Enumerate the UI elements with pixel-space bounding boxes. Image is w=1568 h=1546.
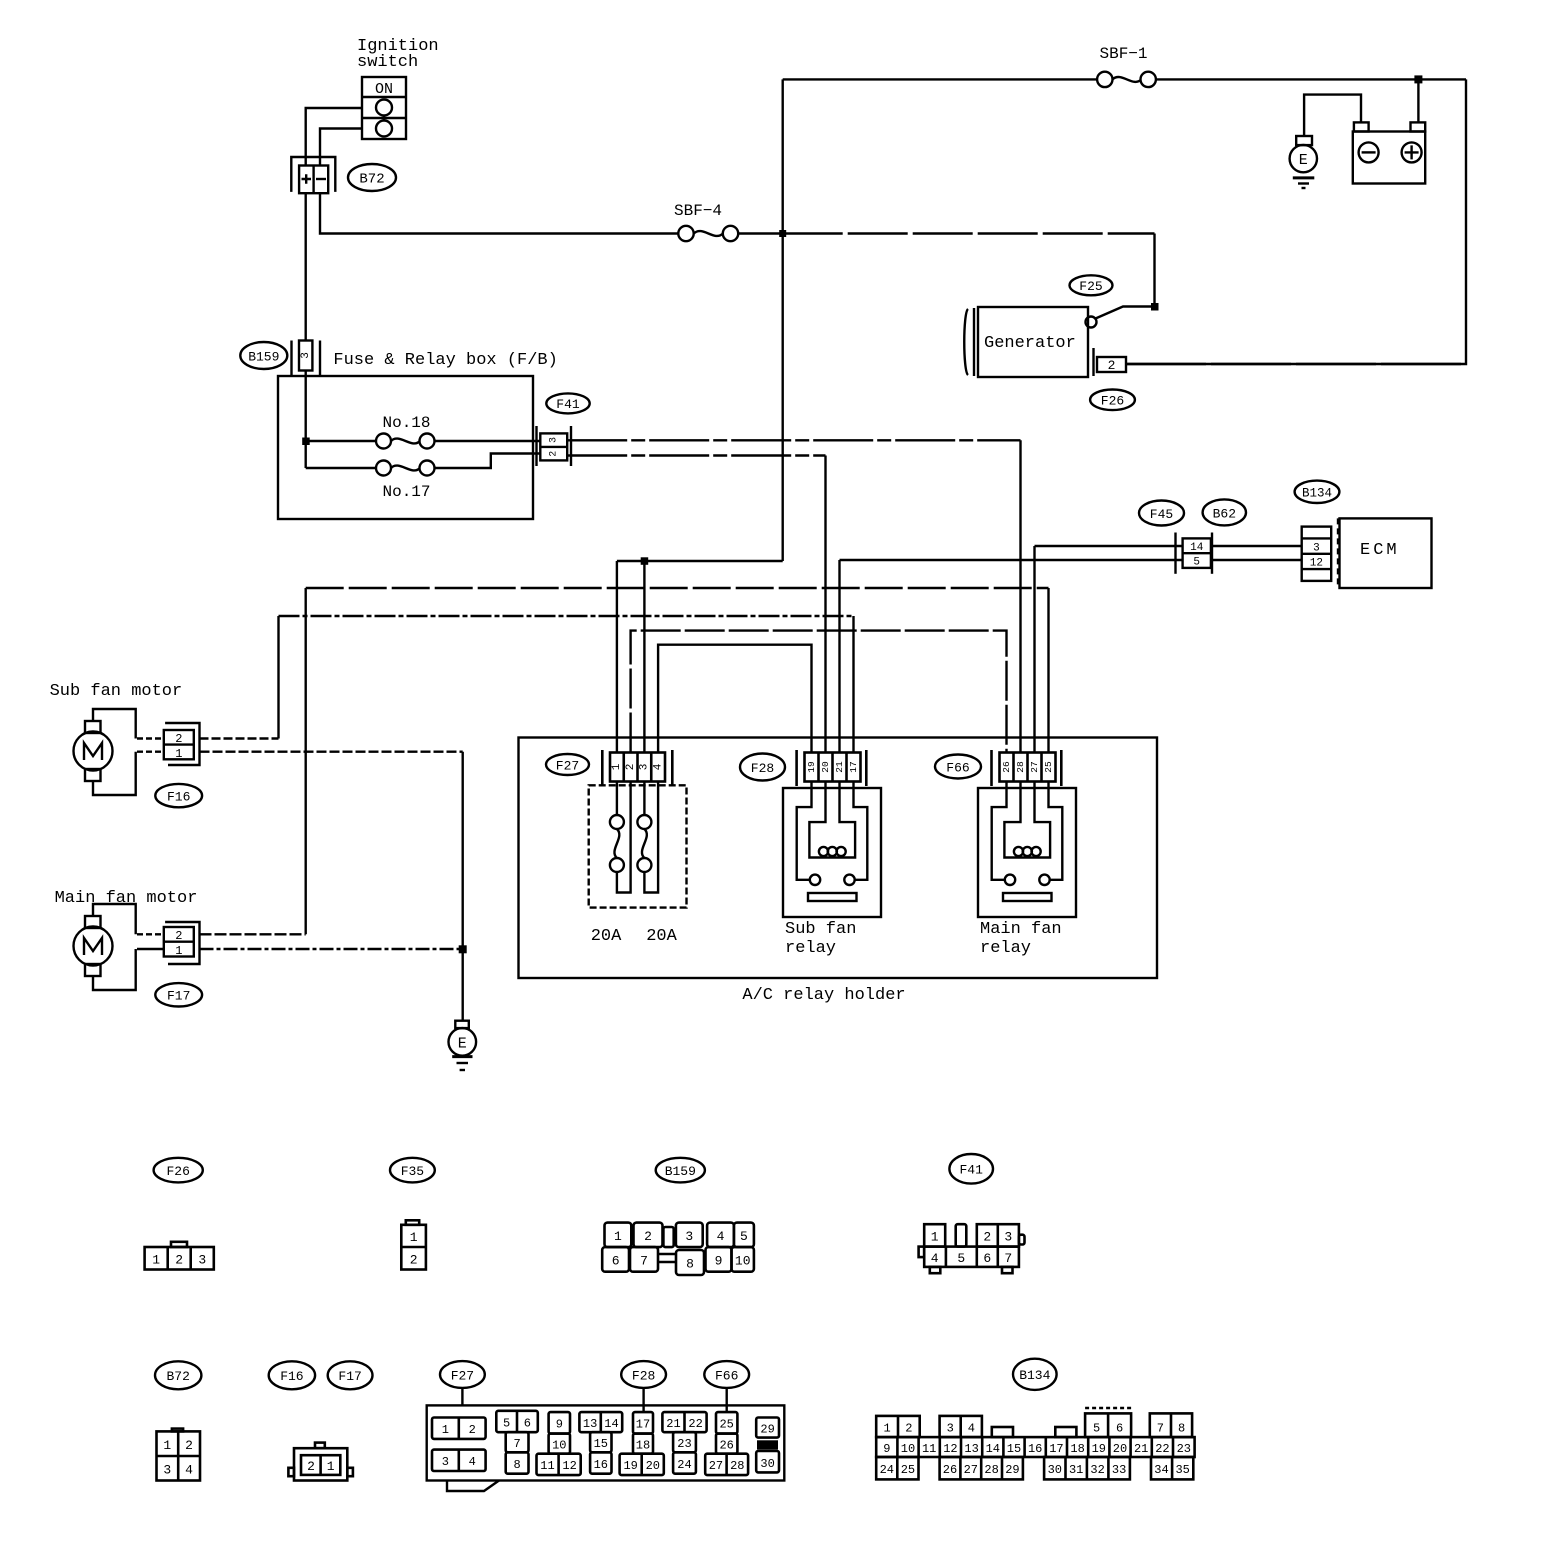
pointer F27 [461,1388,463,1405]
connector F41 pinout [919,1224,1025,1273]
oval label F41 pinout [949,1154,993,1184]
oval label F66 [935,755,981,779]
svg-text:15: 15 [1007,1442,1021,1456]
wire to fuse No.18 [306,440,376,442]
node fuse feed split [641,557,649,565]
wire drop to F25 [1153,234,1155,307]
oval label B134 [1295,481,1340,503]
wire motor to F16 pin1 [137,751,164,753]
svg-text:25: 25 [901,1463,915,1477]
svg-text:4: 4 [469,1455,476,1469]
wire main vertical feed [782,79,784,561]
svg-text:16: 16 [1028,1442,1042,1456]
svg-text:F28: F28 [632,1368,655,1383]
svg-text:Sub fan: Sub fan [785,920,856,939]
holder pinout cells 3-4 [432,1450,486,1471]
wire fuse No.18 to F41 pin1 [435,440,541,442]
wire F45 to B134 pin12 [1211,559,1302,561]
svg-text:4: 4 [717,1229,725,1244]
connector F35 pinout [401,1220,426,1269]
svg-text:22: 22 [1155,1442,1169,1456]
svg-text:5: 5 [1093,1421,1100,1435]
svg-text:27: 27 [1029,761,1040,772]
svg-text:18: 18 [636,1439,650,1453]
svg-text:F17: F17 [338,1369,361,1384]
svg-text:3: 3 [685,1229,693,1244]
svg-text:SBF−4: SBF−4 [674,202,722,220]
svg-text:F27: F27 [451,1368,474,1383]
svg-text:32: 32 [1090,1463,1104,1477]
svg-text:21: 21 [1134,1442,1148,1456]
wire F41 pin1 to F66 coil [567,439,1020,441]
A/C relay holder box [519,738,1158,979]
wire B72 pin2 down and right to SBF-4 [320,193,678,233]
connector F25 pin circle [1086,317,1097,328]
svg-text:B62: B62 [1213,506,1236,521]
svg-text:17: 17 [848,761,859,772]
svg-text:30: 30 [760,1457,774,1471]
svg-text:9: 9 [556,1418,563,1432]
svg-text:F35: F35 [401,1164,424,1179]
connector F45/B62 [1176,533,1213,574]
svg-text:B72: B72 [359,172,384,188]
fuse SBF-4 [678,226,738,241]
connector B72 [291,157,335,193]
wire F66 coil to ECM (F45 pin14) [1035,546,1183,753]
wire right side down to generator [1126,79,1466,364]
wire F17 pin2 to main fan relay [200,933,306,935]
svg-text:1: 1 [614,1229,622,1244]
connector F17 [164,922,200,964]
svg-text:20: 20 [1113,1442,1127,1456]
svg-text:B134: B134 [1302,486,1332,500]
oval label F16 [155,784,202,807]
wire battery plus to top line [1417,79,1419,122]
svg-text:20: 20 [646,1459,660,1473]
svg-text:B159: B159 [665,1164,696,1179]
svg-text:26: 26 [943,1463,957,1477]
connector F16/F17 pinout [288,1443,353,1481]
sub fan relay label [785,920,856,958]
svg-text:2: 2 [307,1459,315,1474]
oval label F16 pinout [269,1361,315,1389]
oval label B62 [1203,499,1246,525]
ignition switch SW1 [362,77,406,139]
wire F16 pin2 to sub fan relay [200,737,279,739]
svg-text:F45: F45 [1150,507,1173,522]
wire F27 pin2 to F66 pin1 [631,631,1007,753]
svg-text:29: 29 [760,1422,774,1436]
wire motor to F17 pin2 [137,933,164,935]
svg-text:30: 30 [1048,1463,1062,1477]
svg-text:No.18: No.18 [382,414,430,432]
svg-text:17: 17 [636,1418,650,1432]
svg-text:12: 12 [1310,558,1323,570]
node SBF-4 junction [779,230,786,237]
svg-text:19: 19 [623,1459,637,1473]
svg-text:10: 10 [901,1442,915,1456]
oval label F35 [390,1158,435,1183]
svg-text:2: 2 [469,1423,476,1437]
svg-text:7: 7 [513,1437,520,1451]
wire sub fan motor top bracket [93,709,136,739]
svg-text:26: 26 [1001,761,1012,773]
svg-text:B72: B72 [166,1369,189,1384]
svg-text:27: 27 [709,1459,723,1473]
oval label F66 pinout [704,1361,749,1388]
connector generator pin 2 [1094,348,1127,376]
svg-text:1: 1 [611,763,623,770]
svg-text:5: 5 [957,1251,965,1266]
svg-text:1: 1 [327,1459,335,1474]
svg-text:F26: F26 [166,1164,189,1179]
svg-text:13: 13 [964,1442,978,1456]
wire generator pin2 to battery line [1126,363,1466,365]
svg-text:34: 34 [1154,1463,1168,1477]
wire SBF-4 to main junction [738,232,783,234]
svg-text:No.17: No.17 [382,483,430,501]
wire F16 pin1 to ground rail [200,751,463,753]
oval label F45 [1139,501,1184,526]
svg-text:35: 35 [1175,1463,1189,1477]
wire main fan motor bottom bracket [93,949,136,990]
oval label B72 pinout [155,1361,201,1389]
wire F25 diagonal link [1096,307,1155,319]
svg-text:20A: 20A [591,927,622,946]
svg-text:8: 8 [1178,1421,1185,1435]
svg-text:14: 14 [986,1442,1000,1456]
ground E bottom [449,1021,477,1070]
oval label B134 pinout [1013,1359,1057,1390]
wire drop to F27 pin3 [643,561,645,753]
svg-text:2: 2 [185,1438,193,1453]
svg-text:relay: relay [980,939,1031,958]
svg-text:23: 23 [1177,1442,1191,1456]
oval label F17 pinout [328,1361,373,1389]
wire F41 pin1 drop [1019,440,1021,752]
svg-text:3: 3 [163,1463,171,1478]
svg-text:F16: F16 [280,1369,303,1384]
svg-text:13: 13 [583,1417,597,1431]
svg-text:2: 2 [1108,358,1116,373]
connector B72 pinout [157,1429,201,1481]
connector F27 [602,750,672,786]
svg-text:4: 4 [931,1251,939,1266]
wire B159 pin3 internal [305,371,307,469]
holder pinout cells 17-20 [620,1412,664,1475]
svg-text:3: 3 [1004,1229,1012,1244]
svg-text:4: 4 [968,1421,975,1435]
holder pinout cells 13-16 [579,1412,622,1474]
svg-text:3: 3 [548,437,559,443]
wire ignition pin1 to B72 [306,108,362,166]
svg-text:6: 6 [524,1416,531,1430]
sub fan relay K1 [783,782,881,918]
svg-text:23: 23 [677,1437,691,1451]
svg-text:29: 29 [1005,1463,1019,1477]
svg-text:2: 2 [905,1421,912,1435]
svg-text:1: 1 [931,1229,939,1244]
svg-text:2: 2 [175,929,182,943]
svg-text:9: 9 [883,1442,890,1456]
svg-text:27: 27 [964,1463,978,1477]
connector B134 pinout row3 [876,1457,1193,1479]
wire F17 pin1 to ground rail [200,948,463,950]
svg-text:31: 31 [1069,1463,1083,1477]
svg-text:3: 3 [1313,542,1320,554]
svg-text:5: 5 [1193,557,1200,569]
fuse No.17 [376,461,435,476]
svg-text:28: 28 [1015,761,1026,773]
oval label F28 [740,754,785,781]
oval label F17 [155,983,202,1006]
svg-text:11: 11 [922,1442,936,1456]
battery BAT [1353,122,1425,183]
wire motor to F17 pin1 [137,948,164,950]
connector B159 pin 3 at fuse box top [292,341,321,376]
connector holder pinout box [427,1405,785,1480]
svg-text:18: 18 [1070,1442,1084,1456]
svg-text:Sub fan motor: Sub fan motor [50,682,183,701]
svg-text:F41: F41 [959,1163,983,1178]
svg-text:10: 10 [735,1253,751,1268]
wire ignition pin2 to B72 [320,129,362,166]
svg-text:2: 2 [644,1229,652,1244]
wire sub fan motor bottom bracket [93,752,136,795]
node ground junction [459,945,467,953]
holder pinout cells 21-24 [662,1412,706,1474]
ground E top right [1290,136,1317,188]
wire F16 pin2 riser [277,616,279,739]
connector B134 pinout row1 [876,1408,1192,1437]
holder pinout cells 25-28 [705,1412,748,1475]
svg-text:1: 1 [883,1421,890,1435]
svg-text:24: 24 [677,1458,691,1472]
svg-text:15: 15 [594,1437,608,1451]
wire SBF-4 junction to generator drop [783,232,1155,234]
wire F28 coil to ECM (F45 pin5) [840,560,1183,753]
svg-text:B134: B134 [1019,1368,1050,1383]
oval label B72 [348,164,396,191]
svg-text:21: 21 [666,1417,680,1431]
svg-text:F41: F41 [556,397,580,412]
svg-text:SBF−1: SBF−1 [1099,45,1147,63]
main fan relay label [980,920,1062,958]
oval label F27 pinout [440,1361,485,1388]
svg-text:21: 21 [834,761,845,773]
svg-text:28: 28 [730,1459,744,1473]
wire main fan feed drop to F66 pin4 [1047,588,1049,753]
svg-text:12: 12 [562,1459,576,1473]
wire F41 pin2 to F28 coil [567,454,825,456]
svg-text:Fuse & Relay box (F/B): Fuse & Relay box (F/B) [333,351,557,370]
svg-text:E: E [458,1035,467,1052]
fuse block dashed box [589,785,687,907]
ECM box U1 [1340,518,1432,588]
main fan relay K2 [978,782,1076,918]
connector F26 pinout [145,1242,214,1270]
svg-text:2: 2 [410,1253,418,1268]
oval label F25 [1070,275,1113,295]
svg-text:switch: switch [357,53,418,72]
oval label F27 [546,754,589,775]
svg-text:F26: F26 [1101,394,1124,409]
node F25 junction [1151,303,1159,311]
fuse 20A no1 [610,782,631,893]
wire sub fan feed [279,615,854,617]
svg-text:6: 6 [612,1253,620,1268]
svg-text:F28: F28 [751,761,774,776]
pointer F28 [642,1388,644,1412]
svg-text:1: 1 [152,1253,160,1268]
wire F27 pin4 to F28 pin1 [658,645,811,753]
svg-text:20: 20 [820,761,831,773]
svg-text:16: 16 [594,1458,608,1472]
svg-text:14: 14 [1190,542,1204,554]
svg-text:4: 4 [185,1463,193,1478]
svg-text:26: 26 [719,1439,733,1453]
svg-text:F16: F16 [167,789,190,804]
svg-text:F27: F27 [556,758,579,773]
svg-text:3: 3 [639,764,651,771]
svg-text:11: 11 [540,1459,554,1473]
connector F41 at fuse box [537,426,572,466]
svg-text:17: 17 [1049,1442,1063,1456]
wire to fuse No.17 [306,467,376,469]
holder pinout cells 1-2 [432,1418,486,1439]
svg-text:25: 25 [719,1418,733,1432]
wire power drop to fuses [617,560,783,562]
fuse 20A no2 [637,782,658,893]
svg-text:3: 3 [442,1455,449,1469]
wire sub fan feed drop to F28 pin4 [852,616,854,753]
svg-text:4: 4 [652,763,664,770]
svg-text:1: 1 [442,1423,449,1437]
svg-text:14: 14 [604,1417,618,1431]
oval label F28 pinout [621,1361,666,1388]
oval label F41 [546,393,589,413]
generator GEN [964,307,1088,377]
svg-text:1: 1 [175,747,182,761]
wire F41 pin2 drop [824,456,826,753]
svg-text:12: 12 [943,1442,957,1456]
svg-text:33: 33 [1112,1463,1126,1477]
svg-text:24: 24 [880,1463,894,1477]
holder pinout foot [447,1481,499,1492]
svg-text:ECM: ECM [1360,541,1400,560]
connector B159 pinout [602,1223,754,1275]
svg-text:F25: F25 [1079,279,1102,294]
svg-text:F66: F66 [946,760,969,775]
connector F16 [164,723,200,765]
wire motor to F16 pin2 [137,737,164,739]
svg-text:Main fan: Main fan [980,920,1062,939]
holder pinout cells 5-8 [496,1411,538,1474]
connector B134 pinout row2 [876,1437,1194,1457]
fuse No.18 [376,434,435,449]
svg-text:2: 2 [983,1229,991,1244]
wire fuse No.17 to F41 pin2 [435,454,541,469]
oval label B159 [240,342,287,369]
connector F66 [992,750,1062,786]
svg-text:28: 28 [984,1463,998,1477]
svg-text:6: 6 [983,1251,991,1266]
svg-text:8: 8 [513,1458,520,1472]
svg-text:9: 9 [715,1253,723,1268]
svg-text:6: 6 [1116,1421,1123,1435]
svg-text:Generator: Generator [984,334,1076,353]
svg-text:1: 1 [175,944,182,958]
svg-text:3: 3 [300,352,312,359]
svg-text:20A: 20A [646,927,677,946]
svg-text:ON: ON [375,81,393,98]
svg-text:1: 1 [163,1438,171,1453]
oval label F26 [1090,390,1135,411]
svg-text:F17: F17 [167,989,190,1004]
svg-text:A/C relay holder: A/C relay holder [742,986,905,1005]
svg-text:25: 25 [1043,761,1054,773]
oval label B159 pinout [656,1158,705,1183]
wire F45 to B134 pin3 [1211,545,1302,547]
svg-text:F66: F66 [715,1368,738,1383]
oval label F26 pinout [154,1158,203,1183]
holder pinout cells 9-12 [537,1412,581,1475]
svg-text:7: 7 [1004,1251,1012,1266]
wire main fan feed [306,587,1049,589]
wire drop to F27 pin1 [616,561,618,753]
fuse and relay box F/B [278,376,533,519]
svg-text:5: 5 [740,1229,748,1244]
svg-text:1: 1 [410,1230,418,1245]
svg-text:B159: B159 [248,350,279,365]
wire main top line [783,78,1466,80]
svg-text:2: 2 [548,451,559,457]
svg-text:19: 19 [1092,1442,1106,1456]
node battery junction [1414,75,1422,83]
svg-text:10: 10 [552,1439,566,1453]
wire main fan motor top bracket [93,904,136,934]
svg-text:relay: relay [785,939,836,958]
node fuse feed junction [302,438,310,446]
holder pinout cells 29-30 [756,1418,779,1473]
main fan motor M2 [74,916,113,976]
svg-text:2: 2 [625,764,637,771]
fuse SBF-1 [1097,72,1156,87]
pointer F66 [726,1388,728,1412]
wire ground rail down [462,752,464,1021]
svg-text:2: 2 [175,1253,183,1268]
connector B134 at ECM [1302,518,1338,588]
svg-text:7: 7 [640,1253,648,1268]
svg-text:8: 8 [686,1256,694,1271]
wire F17 pin2 riser [305,588,307,934]
svg-text:3: 3 [947,1421,954,1435]
svg-text:7: 7 [1157,1421,1164,1435]
wire B72 pin1 down to B159 fuse box connector [305,193,307,340]
wire battery minus to ground E [1304,95,1361,136]
svg-text:22: 22 [688,1417,702,1431]
svg-text:E: E [1299,152,1308,169]
sub fan motor M1 [74,721,113,781]
svg-text:19: 19 [806,761,817,773]
connector F28 [797,750,867,786]
svg-text:2: 2 [175,732,182,746]
svg-text:5: 5 [503,1416,510,1430]
svg-text:3: 3 [198,1253,206,1268]
label 20A 20A [591,927,678,946]
